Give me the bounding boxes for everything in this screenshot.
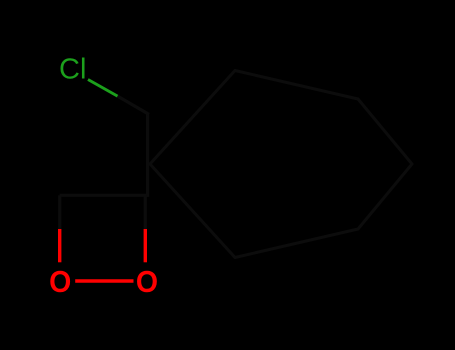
dioxetane ring top edge C4-C3: [60, 194, 148, 197]
ring bond top-right to right vertex: [358, 99, 412, 164]
bond C3-O upper dark half: [144, 195, 147, 229]
ring bond ipso to top vertex: [150, 71, 235, 165]
ring bond bottom-right to bottom vertex: [235, 229, 358, 258]
red oxygen half-bonds: [60, 229, 146, 281]
svg-text:O: O: [49, 265, 71, 299]
bond C4-O upper dark half: [58, 195, 61, 229]
bond CH2-Cl dark half: [117, 96, 150, 115]
bond C3-O red half: [144, 229, 147, 262]
ring bond top to top-right vertex: [235, 71, 358, 100]
phenyl ring C skeleton (very dark on black): [150, 71, 412, 258]
bond C3-CH2: [146, 114, 149, 197]
bond Cl-CH2 green half: [88, 80, 118, 97]
bond C4-O red half: [58, 229, 61, 262]
peroxide bond O-O: [75, 279, 133, 282]
ring bond bottom to ipso: [150, 164, 235, 258]
svg-text:Cl: Cl: [59, 54, 86, 86]
ring bond right to bottom-right vertex: [358, 164, 412, 229]
svg-text:O: O: [136, 265, 158, 299]
